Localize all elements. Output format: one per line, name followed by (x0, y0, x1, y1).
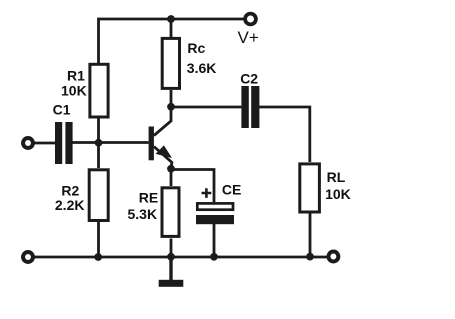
terminal ground left (23, 252, 33, 262)
resistor RE (128, 188, 180, 237)
capacitor C1 (53, 101, 73, 164)
wire R1 to base node to R2 (97, 119, 100, 169)
resistor RL (300, 164, 351, 212)
wire RE bottom to rail (170, 239, 173, 258)
node RL / rail (306, 253, 314, 261)
wire C1 to base node to transistor base (73, 141, 149, 144)
svg-text:C2: C2 (240, 70, 258, 86)
node emitter (167, 165, 175, 173)
svg-text:Rc: Rc (187, 40, 205, 56)
transistor Q1 (149, 105, 172, 169)
wire bottom rail (33, 256, 327, 259)
node RE / ground rail (167, 253, 175, 261)
ground (159, 257, 184, 287)
node collector (167, 103, 175, 111)
svg-text:CE: CE (222, 182, 241, 198)
svg-text:2.2K: 2.2K (55, 197, 85, 213)
wire Rc top (170, 18, 173, 37)
svg-text:RL: RL (327, 169, 346, 185)
node base (95, 139, 103, 147)
wire left branch top (97, 18, 100, 63)
svg-text:RE: RE (139, 190, 158, 206)
wire RL bottom to rail (309, 214, 312, 258)
node R2 / rail (94, 253, 102, 261)
capacitor C2 (240, 70, 259, 128)
wire C2 to RL top (259, 107, 310, 162)
terminal output (328, 252, 338, 262)
wire collector node to C2 (171, 106, 241, 109)
node CE / rail (210, 253, 218, 261)
node top rail / Rc (167, 15, 175, 23)
terminal V+ (238, 14, 259, 47)
wire R2 bottom to ground rail (97, 222, 100, 257)
resistor R2 (55, 170, 108, 221)
svg-text:10K: 10K (325, 186, 351, 202)
svg-text:3.6K: 3.6K (187, 60, 217, 76)
wire input to C1 (31, 142, 55, 145)
svg-text:10K: 10K (61, 83, 87, 99)
svg-text:V+: V+ (238, 28, 259, 47)
wire CE bottom to rail (213, 224, 216, 257)
svg-text:R1: R1 (67, 68, 85, 84)
wire emitter node to CE (171, 170, 214, 203)
wire Rc bottom to collector node (170, 90, 173, 107)
resistor Rc (162, 38, 216, 88)
capacitor CE (electrolytic) (196, 182, 241, 225)
wire emitter node to RE (170, 169, 173, 186)
resistor R1 (61, 64, 108, 117)
svg-text:5.3K: 5.3K (128, 206, 158, 222)
wire top rail (99, 18, 244, 21)
terminal input (23, 138, 33, 148)
svg-text:C1: C1 (53, 101, 71, 117)
